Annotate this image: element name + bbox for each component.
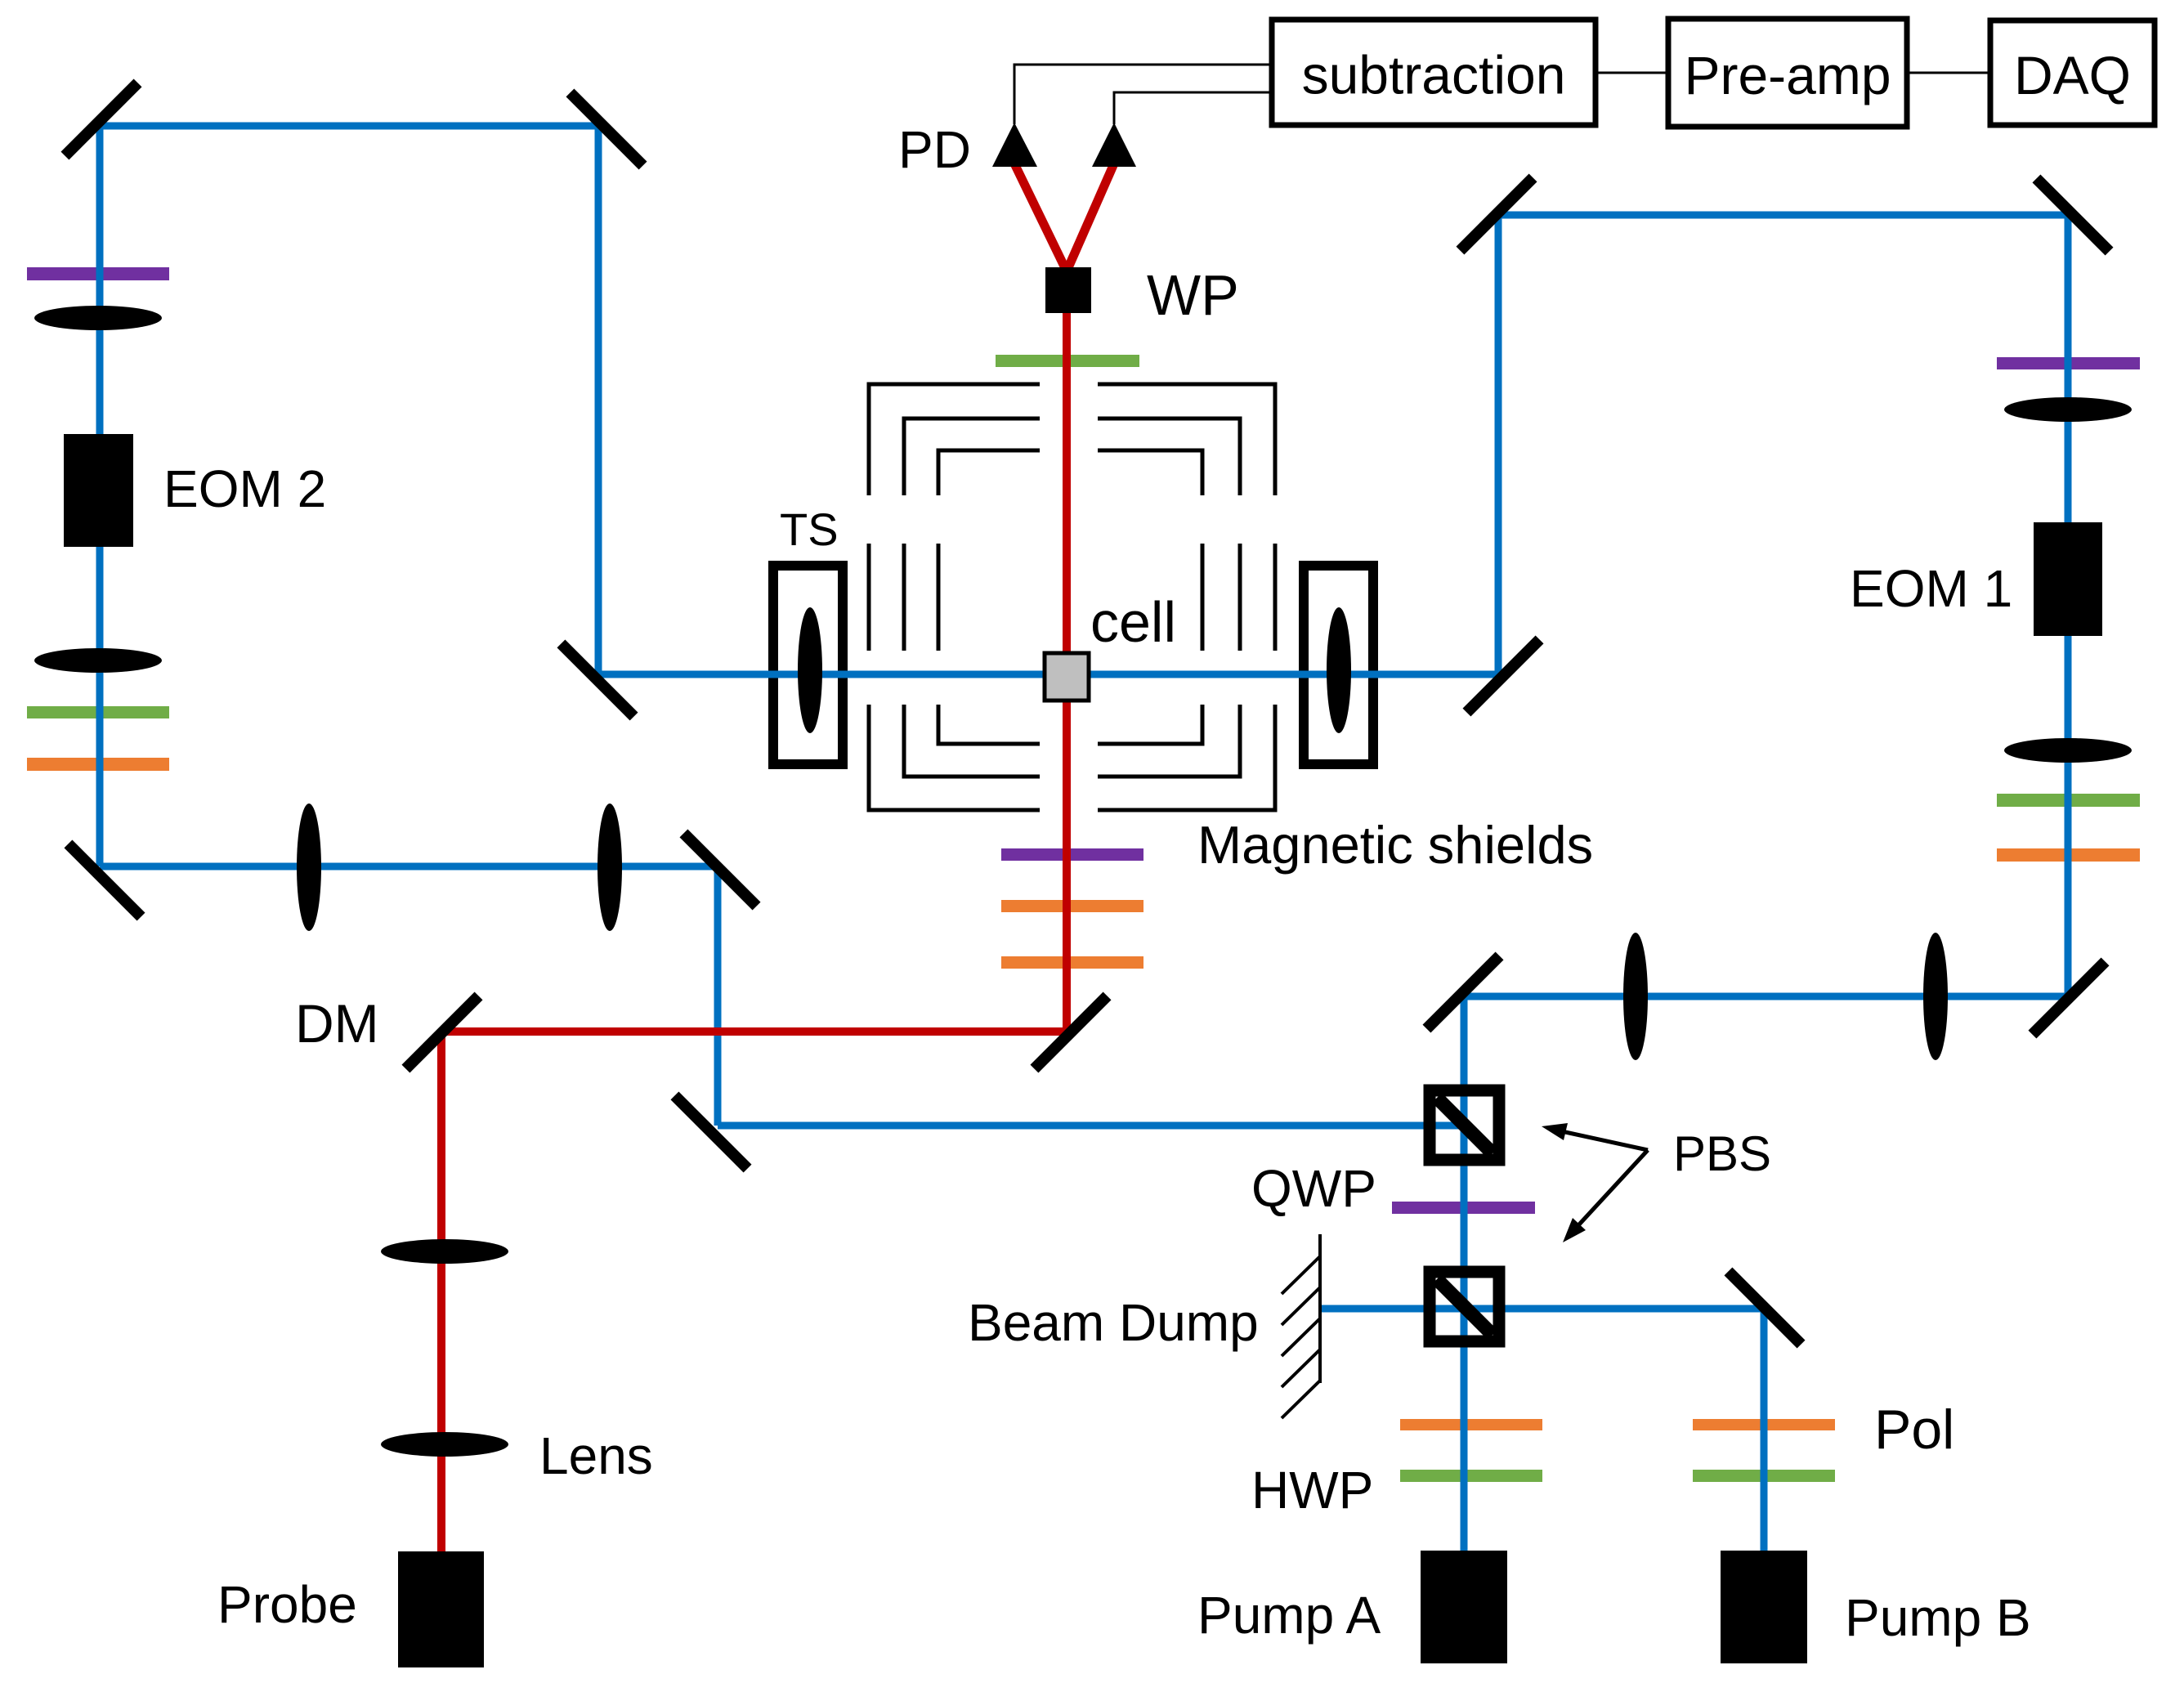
svg-text:Probe: Probe [217,1575,357,1634]
svg-text:DM: DM [295,993,379,1054]
svg-text:Lens: Lens [539,1426,653,1485]
svg-text:Magnetic shields: Magnetic shields [1197,815,1593,875]
svg-text:HWP: HWP [1251,1461,1373,1520]
svg-text:EOM 1: EOM 1 [1850,559,2012,618]
svg-text:Pre-amp: Pre-amp [1684,45,1891,105]
svg-text:PD: PD [898,120,971,179]
svg-text:EOM 2: EOM 2 [163,459,326,518]
svg-text:DAQ: DAQ [2014,45,2131,105]
svg-text:WP: WP [1147,263,1239,327]
svg-text:subtraction: subtraction [1302,45,1566,105]
svg-text:Pol: Pol [1874,1399,1954,1461]
svg-text:Beam Dump: Beam Dump [968,1293,1259,1352]
svg-text:PBS: PBS [1673,1126,1771,1181]
svg-text:cell: cell [1090,590,1176,654]
svg-text:TS: TS [780,504,839,555]
svg-text:Pump B: Pump B [1845,1588,2031,1647]
svg-text:Pump A: Pump A [1197,1586,1381,1645]
svg-text:QWP: QWP [1251,1159,1376,1218]
